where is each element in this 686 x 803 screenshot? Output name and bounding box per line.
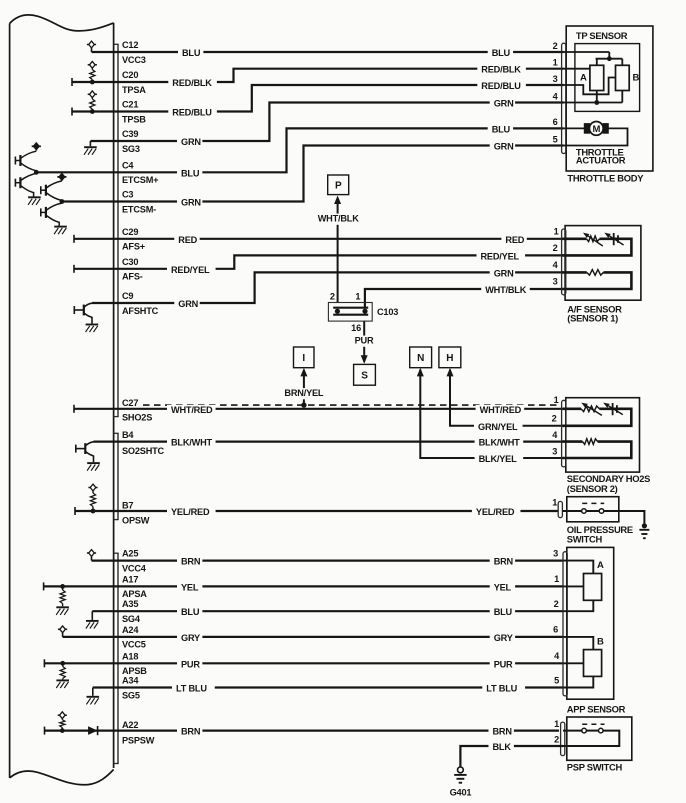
- svg-text:SHO2S: SHO2S: [122, 412, 152, 422]
- pin A22 label: [122, 720, 138, 730]
- wire B7 to boundary: [75, 510, 114, 512]
- wire BLK/WHT B4 to HO2S pin 4: [94, 441, 564, 443]
- label BRN (left r13): [177, 557, 202, 568]
- svg-text:APSA: APSA: [122, 589, 147, 599]
- wire A34 to boundary: [93, 686, 114, 688]
- svg-text:3: 3: [552, 447, 557, 457]
- wire BRN A25 to APP pin 3: [114, 559, 564, 561]
- junction dot TPSA: [90, 80, 95, 85]
- wire BLU C12 to TP sensor pin 2: [114, 51, 564, 53]
- svg-text:WHT/RED: WHT/RED: [171, 405, 213, 415]
- label YEL/RED (right): [472, 507, 521, 518]
- oil pressure switch bracket: [558, 501, 562, 517]
- svg-text:1: 1: [554, 719, 559, 729]
- pin 1 label AF: [554, 226, 559, 236]
- junction dot OPSW: [91, 509, 96, 514]
- svg-text:A35: A35: [122, 599, 138, 609]
- svg-text:H: H: [446, 353, 453, 364]
- label WHT/BLK (P drop): [314, 214, 363, 225]
- svg-text:SG4: SG4: [122, 614, 141, 624]
- label RED/BLK (left): [168, 78, 217, 89]
- wire A24 to boundary: [63, 636, 114, 638]
- junction dot BRN/YEL branch: [301, 402, 306, 407]
- pin 4 label AF: [553, 260, 559, 270]
- label G401: [450, 787, 472, 797]
- junction dot TPSB: [90, 109, 95, 114]
- svg-text:OPSW: OPSW: [122, 515, 150, 525]
- svg-text:1: 1: [355, 292, 360, 302]
- svg-text:VCC5: VCC5: [122, 640, 146, 650]
- svg-text:ETCSM-: ETCSM-: [122, 204, 156, 214]
- junction dot C103 pin1: [362, 309, 367, 314]
- transistor Q5 AFSHTC driver: [74, 303, 98, 332]
- wire BLK PSP pin 2 to G401: [460, 746, 563, 767]
- label LT BLU (right): [482, 684, 525, 695]
- transistor Q3 ETCSM- high: [41, 181, 62, 202]
- PSP switch loop to pin 2: [563, 731, 619, 746]
- throttle actuator motor M: [584, 121, 608, 135]
- TP SENSOR label: [576, 30, 628, 41]
- wire C27 to boundary: [74, 408, 114, 410]
- wire LT BLU A34 to APP pin 5: [114, 686, 564, 688]
- transistor Q4 ETCSM- low: [41, 203, 62, 226]
- svg-text:PUR: PUR: [494, 659, 513, 669]
- label BLU (left r15): [177, 607, 202, 618]
- HO2S sensor cell loop: [562, 403, 631, 426]
- label BLK/WHT (right): [475, 438, 524, 449]
- svg-text:A17: A17: [122, 574, 138, 584]
- HO2S heater loop: [562, 439, 631, 458]
- pull-up resistor TPSB: [88, 91, 97, 112]
- pin AFSHTC label: [122, 306, 159, 316]
- label GRN (left row6): [177, 198, 202, 209]
- pin AFS- label: [122, 272, 143, 282]
- svg-text:1: 1: [552, 497, 557, 507]
- label BLU (right r15): [490, 607, 515, 618]
- junction box H: [439, 347, 461, 368]
- svg-text:5: 5: [554, 675, 559, 685]
- label GRN (right row9): [490, 268, 515, 279]
- HO2S variable arrow 1: [581, 403, 602, 416]
- svg-text:BLK: BLK: [493, 742, 512, 752]
- pin SG3 label: [122, 144, 140, 154]
- svg-text:LT BLU: LT BLU: [176, 684, 207, 694]
- svg-text:RED: RED: [505, 235, 524, 245]
- pin TPSA label: [122, 85, 146, 95]
- junction dot APSA: [60, 584, 65, 589]
- label GRN (right row4): [490, 99, 515, 110]
- label RED/BLU (right): [477, 81, 526, 92]
- label B TP: [633, 73, 640, 84]
- svg-text:GRN: GRN: [181, 137, 201, 147]
- svg-text:P: P: [335, 181, 342, 192]
- connector B segment: [114, 433, 119, 519]
- ECM/PCM left edge: [9, 24, 11, 778]
- ECM/PCM torn bottom edge: [10, 770, 114, 785]
- TP wiper A wire pin1: [562, 68, 590, 70]
- ground G401: [454, 767, 466, 783]
- svg-text:PUR: PUR: [181, 659, 200, 669]
- label BLU (left row5): [177, 168, 202, 179]
- pin 4 label TP: [553, 91, 559, 101]
- svg-text:BRN: BRN: [181, 557, 201, 567]
- terminal tick C27: [73, 405, 75, 413]
- svg-text:5: 5: [553, 134, 558, 144]
- connector A segment: [114, 553, 119, 763]
- wire oil switch to ground: [604, 511, 645, 525]
- pin APSA label: [122, 589, 147, 599]
- svg-text:YEL: YEL: [181, 582, 199, 592]
- svg-text:BLU: BLU: [492, 124, 511, 134]
- oil pressure switch contacts: [562, 503, 604, 513]
- power symbol ETCSM- driver: [57, 173, 66, 180]
- wire C12 to boundary: [92, 51, 114, 53]
- pin APSB label: [122, 666, 147, 676]
- label RED/YEL (right): [477, 251, 526, 262]
- terminal tick A18: [43, 659, 45, 667]
- wire A18 to boundary: [44, 662, 113, 664]
- pin 5 label TP: [553, 134, 558, 144]
- pin 6 label APP: [553, 625, 558, 635]
- svg-text:GRN: GRN: [181, 198, 201, 208]
- PSP switch contacts: [563, 724, 605, 733]
- label A APP: [597, 560, 604, 571]
- svg-text:A: A: [580, 73, 587, 84]
- label YEL (right): [490, 582, 515, 593]
- label YEL (left): [177, 582, 202, 593]
- arrowhead into H: [447, 368, 454, 377]
- wire GRY A24 to APP pin 6: [114, 636, 564, 638]
- wire GRN C39 jog: [114, 103, 564, 142]
- (SENSOR 2) label: [567, 483, 618, 494]
- svg-text:A: A: [597, 560, 604, 571]
- wire BRN A22 to PSP switch: [114, 729, 559, 731]
- svg-text:GRY: GRY: [181, 633, 200, 643]
- svg-text:3: 3: [553, 277, 558, 287]
- svg-text:B4: B4: [122, 430, 134, 440]
- svg-text:2: 2: [553, 41, 558, 51]
- svg-text:TP SENSOR: TP SENSOR: [576, 30, 628, 41]
- TP sensor top node wire: [562, 52, 622, 65]
- label GRY (left): [177, 633, 202, 644]
- transistor Q6 SO2SHTC driver: [76, 442, 100, 471]
- wire RED/BLK C20 jog: [114, 69, 564, 82]
- A/F heater loop: [562, 270, 631, 289]
- svg-text:ACTUATOR: ACTUATOR: [576, 155, 626, 166]
- pin A25 label: [122, 549, 138, 559]
- pin C30 label: [122, 257, 138, 267]
- APP connector bracket: [563, 552, 567, 696]
- label A TP: [580, 73, 587, 84]
- secondary HO2S box: [566, 398, 640, 472]
- svg-text:3: 3: [553, 548, 558, 558]
- svg-text:BLU: BLU: [182, 48, 201, 58]
- pin PSPSW label: [122, 736, 155, 746]
- junction box N: [410, 347, 432, 368]
- APP resistor A wiring: [564, 561, 594, 612]
- svg-text:SO2SHTC: SO2SHTC: [122, 446, 165, 456]
- ground SG5: [86, 688, 99, 705]
- transistor Q2 ETCSM+ low: [15, 173, 36, 196]
- wire BLK/YEL from N: [420, 370, 563, 459]
- label GRN (left row4): [177, 137, 202, 148]
- A/F SENSOR label: [567, 303, 622, 314]
- APP resistor B: [584, 650, 602, 677]
- svg-text:C9: C9: [122, 291, 133, 301]
- label RED/YEL (left): [167, 265, 216, 276]
- label GRY (right): [490, 633, 515, 644]
- SECONDARY HO2S label: [567, 473, 650, 484]
- pin SG4 label: [122, 614, 141, 624]
- svg-text:GRN: GRN: [178, 299, 198, 309]
- TP bottom node wire pin4: [562, 91, 622, 103]
- THROTTLE BODY label: [567, 172, 644, 183]
- connector C segment: [114, 44, 119, 416]
- svg-text:3: 3: [553, 74, 558, 84]
- pin 2 label HO2S: [552, 413, 557, 423]
- svg-text:BRN/YEL: BRN/YEL: [284, 388, 324, 398]
- svg-text:YEL: YEL: [494, 582, 512, 592]
- label C103: [377, 307, 398, 317]
- wire motor pin6: [562, 127, 584, 129]
- arrowhead into N: [417, 368, 424, 377]
- label BRN (right r19): [489, 727, 514, 738]
- svg-text:A34: A34: [122, 676, 139, 686]
- svg-text:BRN: BRN: [181, 727, 201, 737]
- wire PUR C103 pin16 to S: [363, 321, 365, 362]
- pin TPSB label: [122, 114, 146, 124]
- wire GRN/YEL from H: [450, 370, 564, 426]
- svg-text:VCC4: VCC4: [122, 563, 147, 573]
- ground SG3: [84, 141, 97, 155]
- svg-text:C12: C12: [122, 40, 138, 50]
- junction dot TP top node: [607, 56, 612, 61]
- wire C30 to boundary: [74, 268, 114, 270]
- wire WHT/RED C27 to HO2S pin 1: [114, 408, 564, 410]
- svg-text:WHT/BLK: WHT/BLK: [318, 214, 360, 224]
- junction dot C103 pin2: [335, 309, 340, 314]
- svg-text:2: 2: [554, 735, 559, 745]
- pin B7 label: [122, 500, 133, 510]
- wire GRN C9 jog: [92, 272, 564, 303]
- svg-text:GRN: GRN: [494, 99, 514, 109]
- A/F connector bracket: [562, 229, 566, 295]
- pin 1 label APP: [554, 574, 559, 584]
- pin 4 label HO2S: [552, 430, 558, 440]
- pin C39 label: [122, 129, 138, 139]
- pin ETCSM- label: [122, 204, 156, 214]
- wire RED/BLU C21 jog: [114, 85, 564, 112]
- transistor Q1 ETCSM+ high: [15, 151, 36, 172]
- svg-text:2: 2: [552, 413, 557, 423]
- wire A35 to boundary: [92, 610, 113, 612]
- svg-text:LT BLU: LT BLU: [486, 684, 517, 694]
- svg-text:RED/YEL: RED/YEL: [171, 265, 210, 275]
- pull-down resistor APSA: [60, 586, 65, 606]
- label BLK/YEL: [475, 454, 524, 465]
- PSP switch bracket: [561, 722, 565, 756]
- junction dot TP bottom node: [594, 100, 599, 105]
- APP sensor box: [567, 547, 614, 699]
- throttle body outer box: [566, 26, 653, 171]
- connector C103 body: [328, 303, 372, 322]
- junction dot ETCSM+: [34, 170, 39, 175]
- svg-text:N: N: [417, 353, 424, 364]
- svg-text:RED/BLU: RED/BLU: [172, 108, 212, 118]
- pin A17 label: [122, 574, 138, 584]
- pin C4 label: [122, 160, 134, 170]
- pin 4 label APP: [554, 651, 560, 661]
- svg-text:C3: C3: [122, 190, 133, 200]
- svg-text:B7: B7: [122, 500, 133, 510]
- pin 2 label APP: [554, 599, 559, 609]
- svg-text:PSP SWITCH: PSP SWITCH: [567, 761, 623, 772]
- svg-text:G401: G401: [450, 787, 472, 797]
- wire C29 to boundary: [74, 238, 114, 240]
- pin C9 label: [122, 291, 133, 301]
- wire A17 to boundary: [44, 585, 114, 587]
- svg-text:SWITCH: SWITCH: [567, 533, 603, 544]
- label RED (right): [501, 235, 526, 246]
- ground ETCSM+ driver: [28, 197, 41, 205]
- arrowhead into I: [300, 368, 307, 377]
- label BLK: [489, 742, 514, 753]
- pin 1 label OPSW: [552, 497, 557, 507]
- pin VCC4 label: [122, 563, 147, 573]
- svg-text:AFS+: AFS+: [122, 242, 145, 252]
- pin 3 label TP: [553, 74, 558, 84]
- label PUR: [351, 336, 376, 347]
- svg-text:WHT/BLK: WHT/BLK: [485, 285, 527, 295]
- label GRN (left row9): [174, 299, 199, 310]
- pull-up resistor TPSA: [88, 61, 97, 82]
- svg-text:YEL/RED: YEL/RED: [476, 507, 515, 517]
- svg-text:RED/BLK: RED/BLK: [481, 65, 521, 75]
- ground ETCSM- driver: [54, 227, 67, 235]
- HO2S variable arrow 2: [603, 403, 623, 415]
- svg-text:A25: A25: [122, 549, 138, 559]
- svg-text:PUR: PUR: [355, 336, 374, 346]
- svg-text:2: 2: [330, 292, 335, 302]
- svg-text:GRY: GRY: [494, 633, 513, 643]
- SWITCH label (oil): [567, 533, 603, 544]
- label BLU (left): [178, 48, 203, 59]
- ECM/PCM torn top edge: [10, 15, 114, 31]
- svg-text:BLK/WHT: BLK/WHT: [479, 438, 521, 448]
- PSP switch box: [567, 717, 632, 760]
- label BLU (right): [488, 48, 513, 59]
- label GRN (right row6): [490, 142, 515, 153]
- THROTTLE ACTUATOR label: [576, 147, 626, 166]
- svg-text:1: 1: [554, 574, 559, 584]
- pin SO2SHTC label: [122, 446, 165, 456]
- svg-text:BRN: BRN: [494, 557, 514, 567]
- pin 1 label TP: [553, 58, 558, 68]
- A/F sensor box: [565, 226, 641, 301]
- junction box I: [294, 347, 315, 368]
- pin A24 label: [122, 625, 139, 635]
- svg-text:TPSB: TPSB: [122, 114, 146, 124]
- pin C12 label: [122, 40, 138, 50]
- junction box S: [354, 364, 376, 385]
- resistor A TP sensor: [590, 65, 604, 90]
- svg-text:A18: A18: [122, 651, 138, 661]
- svg-text:16: 16: [351, 323, 361, 333]
- svg-text:RED: RED: [178, 235, 197, 245]
- wire RED/YEL C30 jog: [114, 255, 564, 268]
- pin 2 label AF: [553, 243, 558, 253]
- APP resistor A: [584, 574, 602, 601]
- resistor B TP sensor: [616, 65, 630, 90]
- svg-text:B: B: [633, 73, 640, 84]
- svg-text:GRN: GRN: [494, 268, 514, 278]
- TP wiper B wire pin3: [562, 78, 615, 95]
- pin OPSW label: [122, 515, 150, 525]
- svg-text:C4: C4: [122, 160, 134, 170]
- APP resistor B wiring: [564, 637, 594, 688]
- pin SHO2S label: [122, 412, 152, 422]
- label WHT/RED (right): [476, 405, 525, 416]
- svg-text:YEL/RED: YEL/RED: [171, 507, 210, 517]
- pin 3 label HO2S: [552, 447, 557, 457]
- ground APSB: [56, 680, 69, 688]
- pin A18 label: [122, 651, 138, 661]
- HO2S connector bracket: [562, 400, 566, 467]
- power symbol VCC4: [87, 550, 96, 561]
- svg-text:1: 1: [554, 395, 559, 405]
- wire WHT/BLK to P (vertical): [337, 203, 339, 303]
- arrowhead into S: [361, 355, 368, 364]
- pull-up resistor OPSW: [88, 484, 97, 511]
- pin C27 label: [122, 398, 138, 408]
- ground SG4: [86, 611, 99, 628]
- svg-text:BLK/WHT: BLK/WHT: [171, 438, 213, 448]
- ground APSA: [56, 607, 69, 615]
- svg-text:S: S: [361, 371, 368, 382]
- wire A22 to boundary: [45, 729, 114, 731]
- pin 1 label HO2S: [554, 395, 559, 405]
- pin C20 label: [122, 70, 138, 80]
- wire C20 to boundary: [72, 81, 114, 83]
- wire BLU C4 jog: [36, 128, 563, 172]
- pin 3 label AF: [553, 277, 558, 287]
- label BLK/WHT (left): [167, 438, 216, 449]
- label RED/BLU (left): [168, 108, 217, 119]
- terminal tick C30: [73, 265, 75, 273]
- terminal tick C29: [73, 235, 75, 243]
- wire GRN C3 jog: [62, 146, 564, 202]
- label BLU (right row5): [488, 124, 513, 135]
- junction dot PSPSW: [60, 728, 65, 733]
- svg-text:BLU: BLU: [181, 607, 200, 617]
- pin 1 label C103: [355, 292, 360, 302]
- pin A35 label: [122, 599, 138, 609]
- terminal tick A22: [44, 727, 46, 735]
- pin AFS+ label: [122, 242, 145, 252]
- svg-text:M: M: [592, 124, 600, 135]
- wire C39 to boundary: [90, 140, 113, 142]
- svg-text:2: 2: [554, 599, 559, 609]
- svg-text:ETCSM+: ETCSM+: [122, 175, 158, 185]
- terminal tick C21: [71, 108, 73, 116]
- junction box P: [328, 175, 349, 195]
- label LT BLU (left): [172, 684, 215, 695]
- PSP SWITCH label: [567, 761, 623, 772]
- APP SENSOR label: [567, 703, 626, 714]
- svg-text:SG5: SG5: [122, 690, 140, 700]
- pull-down resistor APSB: [60, 663, 65, 679]
- svg-text:APP SENSOR: APP SENSOR: [567, 703, 626, 714]
